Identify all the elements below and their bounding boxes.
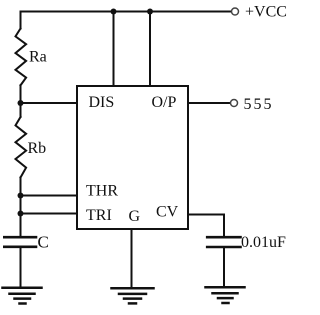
wire THR net <box>21 195 78 197</box>
svg-text:THR: THR <box>86 183 118 200</box>
node A junction dot <box>18 100 24 106</box>
svg-text:Rb: Rb <box>28 140 47 157</box>
wire DIS net <box>21 102 78 104</box>
node TRI junction dot <box>18 211 24 217</box>
terminal circle +VCC <box>232 8 239 15</box>
wire Rb to node THR <box>20 178 22 196</box>
svg-text:0.01uF: 0.01uF <box>241 234 286 251</box>
svg-text:DIS: DIS <box>89 94 115 111</box>
wire VCC top rail <box>21 11 231 13</box>
wire VCC pin (top left) <box>113 12 115 87</box>
wire TRI net <box>21 213 78 215</box>
wire Ra to node A <box>20 85 22 103</box>
svg-text:+VCC: +VCC <box>245 4 287 21</box>
IC U1 555 timer body <box>77 86 188 229</box>
resistor Ra <box>16 29 27 86</box>
svg-text:555: 555 <box>244 96 274 113</box>
wire 0.01uF capacitor to ground <box>223 247 225 287</box>
capacitor C <box>4 237 36 247</box>
svg-text:TRI: TRI <box>86 207 112 224</box>
wire G ground pin <box>131 229 133 288</box>
ground middle <box>112 288 154 303</box>
wire O/P output net <box>188 102 231 104</box>
svg-text:O/P: O/P <box>152 94 177 111</box>
wire CV net <box>188 215 224 238</box>
wire TRI to capacitor C <box>20 214 22 238</box>
wire C to ground <box>20 247 22 287</box>
wire node A to Rb <box>20 103 22 117</box>
junction dot VCC pin on rail <box>111 9 117 15</box>
wire RESET pin (top right) <box>149 12 151 87</box>
ground right <box>206 287 245 303</box>
wire THR to TRI <box>20 196 22 214</box>
resistor Rb <box>16 117 27 178</box>
svg-text:Ra: Ra <box>29 49 47 66</box>
svg-text:C: C <box>38 233 49 252</box>
capacitor 0.01uF <box>207 237 240 247</box>
ground left <box>3 288 42 304</box>
svg-text:CV: CV <box>156 204 179 221</box>
node THR junction dot <box>18 193 24 199</box>
junction dot RESET pin on rail <box>147 9 153 15</box>
wire left vertical top segment <box>20 12 22 29</box>
svg-text:G: G <box>129 208 141 225</box>
terminal circle 555 output <box>231 100 238 107</box>
